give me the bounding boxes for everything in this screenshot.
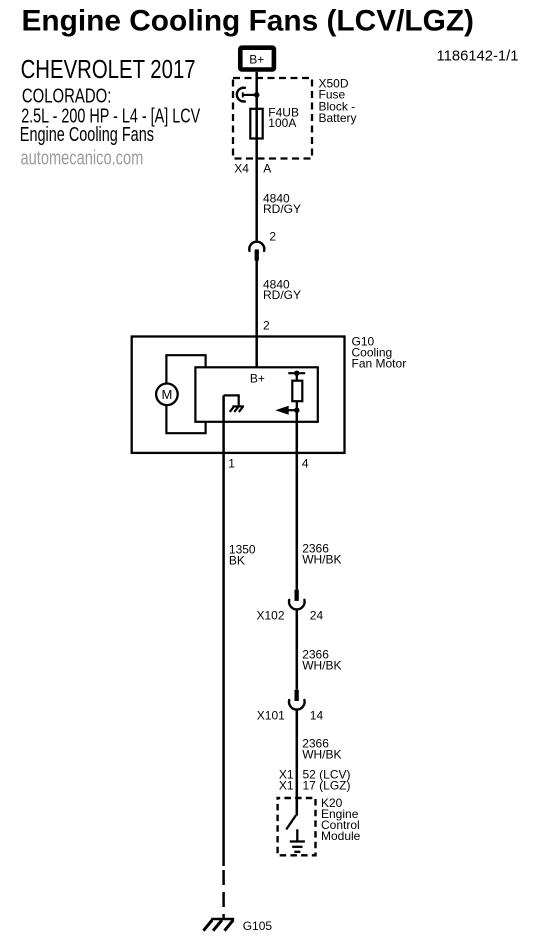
internal chassis ground — [232, 405, 244, 407]
svg-text:X1: X1 — [279, 778, 294, 792]
wire B+ to connector 2 — [255, 72, 258, 242]
svg-text:WH/BK: WH/BK — [302, 658, 341, 672]
K20 engine control module dashed box — [278, 798, 316, 855]
internal connector stub in fuse block — [237, 88, 245, 102]
switch (ECM low-side driver) — [286, 815, 296, 829]
svg-text:WH/BK: WH/BK — [302, 747, 341, 761]
svg-text:B+: B+ — [250, 372, 265, 386]
junction dot — [294, 371, 299, 376]
fuse F4UB 100A — [250, 109, 262, 139]
node bar (resistor branch) — [288, 372, 305, 374]
wire pin 4 to X102 — [296, 410, 299, 590]
motor M (G10 fan motor) — [156, 384, 178, 406]
svg-text:A: A — [263, 161, 271, 175]
svg-text:1186142-1/1: 1186142-1/1 — [437, 48, 519, 64]
svg-text:BK: BK — [229, 553, 245, 567]
svg-text:Battery: Battery — [319, 111, 357, 125]
svg-text:14: 14 — [310, 709, 324, 723]
svg-text:X4: X4 — [234, 161, 249, 175]
resistor (fan speed control) — [296, 373, 298, 381]
svg-text:M: M — [161, 387, 172, 402]
svg-text:G105: G105 — [243, 919, 273, 933]
svg-text:2: 2 — [263, 319, 270, 333]
svg-text:Module: Module — [321, 829, 361, 843]
wire pin 1 to ground G105 — [222, 395, 225, 866]
battery terminal B+ box — [240, 48, 274, 70]
svg-text:1: 1 — [228, 456, 235, 470]
motor control inner box — [195, 367, 317, 422]
chassis ground G105 — [211, 918, 234, 921]
svg-text:100A: 100A — [268, 116, 296, 130]
svg-text:X101: X101 — [257, 709, 285, 723]
svg-text:RD/GY: RD/GY — [263, 202, 301, 216]
svg-text:B+: B+ — [249, 52, 264, 66]
junction dot — [254, 92, 260, 98]
svg-text:24: 24 — [310, 609, 324, 623]
svg-text:COLORADO:: COLORADO: — [22, 86, 112, 108]
svg-text:17 (LGZ): 17 (LGZ) — [303, 778, 351, 792]
motor loop wires — [166, 355, 205, 433]
inline connector X102 — [295, 590, 299, 601]
wire X101 to K20 — [296, 710, 299, 816]
wire connector 2 to fan motor — [255, 261, 258, 368]
internal ground wire — [224, 395, 239, 405]
svg-text:CHEVROLET 2017: CHEVROLET 2017 — [21, 56, 196, 84]
fuse block X50D dashed box — [233, 78, 312, 159]
inline connector 2 — [249, 242, 264, 251]
svg-text:WH/BK: WH/BK — [302, 552, 341, 566]
arrow to pin 4 (control output) — [284, 409, 297, 411]
svg-text:Engine Cooling Fans: Engine Cooling Fans — [20, 124, 154, 146]
junction dot — [294, 408, 299, 413]
inline connector X101 — [295, 690, 299, 701]
earth ground in K20 — [296, 829, 298, 841]
G10 cooling fan motor outer box — [132, 337, 345, 453]
wire X102 to X101 — [296, 610, 299, 690]
svg-text:2: 2 — [269, 229, 276, 243]
svg-text:X102: X102 — [256, 609, 284, 623]
svg-text:Engine Cooling Fans (LCV/LGZ): Engine Cooling Fans (LCV/LGZ) — [22, 5, 475, 37]
svg-text:4: 4 — [302, 456, 309, 470]
svg-text:automecanico.com: automecanico.com — [21, 148, 144, 170]
svg-text:RD/GY: RD/GY — [263, 288, 301, 302]
svg-text:Fan Motor: Fan Motor — [352, 357, 407, 371]
